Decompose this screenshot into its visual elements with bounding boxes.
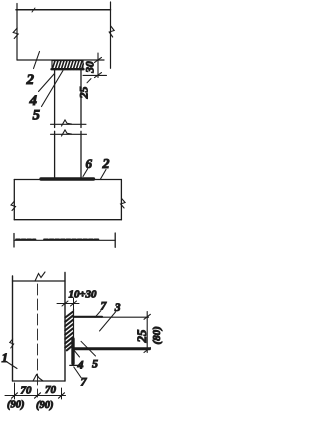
crossbeam top flange (thick part) — [74, 316, 103, 318]
svg-text:(90): (90) — [36, 400, 54, 411]
leader for label 7 top — [95, 311, 101, 318]
svg-text:(80): (80) — [151, 326, 163, 344]
ground line texture — [16, 238, 99, 240]
dimension line 30 / 25 (right of pad) — [83, 53, 107, 78]
dimension 75 (80) right of beam — [144, 312, 150, 353]
break arrow on column top edge — [35, 272, 45, 281]
break mark foundation left edge — [11, 201, 16, 211]
weld/grout hatch between column and beam — [65, 312, 73, 351]
break mark on slab right edge — [109, 26, 114, 37]
svg-text:70: 70 — [21, 385, 33, 397]
break mark on slab left edge — [13, 28, 18, 39]
svg-text:4: 4 — [77, 358, 84, 372]
ground line between figures — [14, 239, 115, 241]
leader for label 1 — [7, 362, 17, 369]
bearing pad (hatched block) under slab — [52, 60, 84, 70]
crossbeam top line (thin part) — [102, 316, 149, 318]
svg-text:10÷30: 10÷30 — [69, 290, 98, 301]
leader for label 3 — [100, 312, 116, 331]
leader for label 2 — [34, 52, 40, 69]
svg-text:(90): (90) — [7, 400, 25, 411]
bottom dimension 70 70 — [5, 383, 66, 399]
svg-text:1: 1 — [2, 350, 9, 365]
leader for label 5 — [42, 71, 64, 107]
leader for label 4 — [74, 350, 80, 357]
leader for label 7 lower — [74, 367, 81, 378]
crossbeam bottom flange (thick) — [74, 347, 150, 350]
small tick after 25 — [87, 79, 91, 83]
break arrow on column bottom edge — [33, 375, 43, 382]
svg-text:30: 30 — [85, 61, 97, 74]
svg-text:2: 2 — [26, 72, 35, 88]
column break line upper — [51, 123, 87, 125]
tick on slab top edge — [32, 8, 35, 12]
svg-text:6: 6 — [86, 156, 93, 171]
column centerline (dashed) — [37, 284, 39, 397]
svg-text:7: 7 — [81, 375, 88, 389]
break mark on column left edge — [10, 339, 14, 348]
top slab (beam) outline — [16, 2, 111, 68]
lower figure: column outline — [13, 273, 66, 382]
leader for label 2 lower — [101, 170, 107, 180]
right tick of ground line — [114, 233, 116, 247]
column (lower part) — [55, 131, 81, 177]
break mark foundation right edge — [121, 199, 126, 209]
left tick of ground line — [13, 234, 15, 248]
foundation slab outline — [14, 180, 121, 220]
svg-text:25: 25 — [77, 87, 91, 100]
column break line lower — [51, 133, 87, 135]
leader for label 5 — [81, 341, 96, 356]
fish plate (thick vertical) — [71, 339, 74, 364]
base plate (thick) on foundation — [41, 177, 94, 180]
svg-text:70: 70 — [45, 384, 57, 396]
fish plate bottom edge — [70, 364, 80, 366]
beam end plate line — [73, 309, 75, 339]
leader for label 6 — [83, 169, 88, 177]
leader for label 4 — [39, 74, 55, 92]
svg-text:25: 25 — [134, 329, 149, 344]
svg-text:5: 5 — [33, 108, 41, 124]
svg-text:5: 5 — [92, 357, 98, 371]
svg-text:7: 7 — [101, 301, 108, 313]
dim line for 10 gap — [57, 298, 79, 313]
column (upper part) — [55, 70, 81, 128]
